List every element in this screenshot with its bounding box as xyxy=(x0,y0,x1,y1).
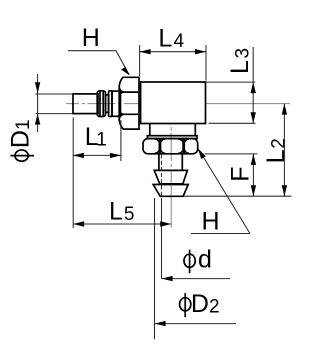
svg-text:H: H xyxy=(202,208,220,236)
svg-text:F: F xyxy=(227,167,255,182)
svg-text:d: d xyxy=(198,246,212,274)
svg-text:H: H xyxy=(82,24,100,52)
